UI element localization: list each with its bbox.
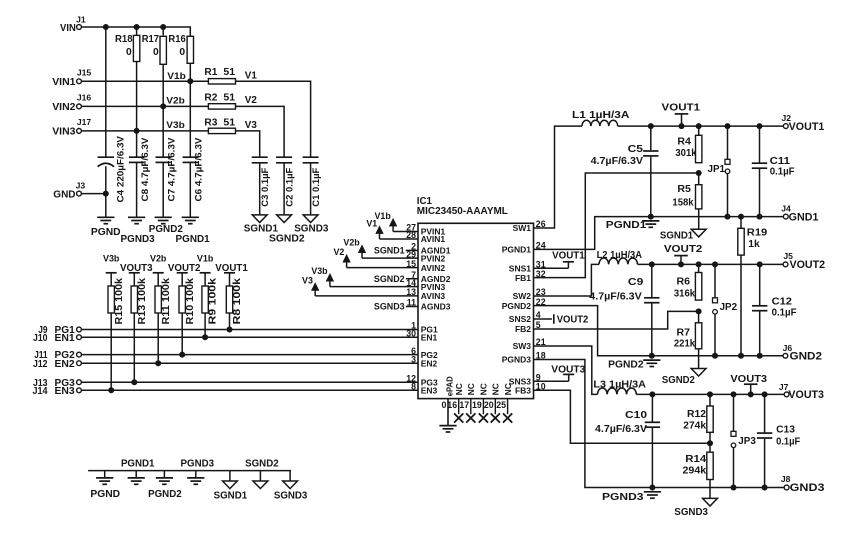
svg-text:AVIN2: AVIN2	[421, 263, 446, 273]
svg-text:C10: C10	[625, 409, 647, 421]
wire VIN1 net	[81, 80, 208, 82]
svg-text:V1b: V1b	[197, 254, 214, 264]
resistor R18 0	[115, 27, 140, 62]
svg-text:GND: GND	[53, 188, 76, 200]
svg-text:NC: NC	[466, 383, 476, 395]
capacitor C11 0.1uF	[752, 126, 795, 217]
svg-text:V3b: V3b	[166, 120, 185, 130]
ground PGND (below C4)	[91, 217, 121, 238]
svg-text:V2b: V2b	[343, 238, 360, 248]
power flag V1b for R9	[197, 254, 214, 273]
svg-text:8: 8	[411, 382, 416, 392]
wire R15 to line	[108, 313, 114, 393]
svg-text:V3b: V3b	[103, 254, 120, 264]
net label V3	[245, 120, 258, 131]
svg-text:SGND1: SGND1	[660, 231, 694, 242]
svg-text:PGND1: PGND1	[176, 234, 210, 245]
net stub SGND3 (AGND pin)	[374, 302, 418, 312]
connector J9 (PG1)	[38, 325, 81, 336]
junction dots GND2 rail	[649, 353, 763, 359]
ground SGND3 (legend)	[274, 471, 308, 502]
power flag V2b for R11	[150, 254, 167, 273]
svg-text:FB2: FB2	[515, 324, 531, 334]
wire C1 to SGND3	[310, 163, 312, 215]
svg-text:V3b: V3b	[311, 266, 328, 276]
svg-text:19: 19	[472, 400, 482, 410]
resistor R17 0	[142, 27, 167, 64]
svg-text:V2b: V2b	[166, 95, 185, 105]
svg-text:0: 0	[441, 400, 446, 410]
wire R5 to SGND1	[698, 209, 700, 229]
svg-text:GND1: GND1	[789, 211, 819, 223]
svg-text:R6: R6	[677, 277, 691, 288]
wire L2 to VOUT2 rail	[638, 263, 784, 265]
net flag VOUT3 (SNS3)	[534, 364, 586, 381]
connector J5 (VOUT2)	[783, 251, 825, 271]
svg-text:J10: J10	[33, 333, 48, 344]
wire C7 column	[162, 106, 164, 217]
svg-text:NC: NC	[491, 383, 501, 395]
svg-text:R13 100k: R13 100k	[137, 277, 148, 324]
svg-text:R17: R17	[142, 34, 160, 45]
connector J17 (VIN3)	[52, 117, 91, 138]
svg-text:VOUT1: VOUT1	[789, 121, 825, 133]
svg-text:0.1µF: 0.1µF	[770, 166, 795, 178]
svg-text:51: 51	[223, 92, 235, 103]
svg-text:301k: 301k	[675, 148, 697, 159]
wire R13 to line	[131, 313, 137, 385]
jumper JP3	[731, 394, 756, 487]
svg-text:SGND2: SGND2	[245, 459, 279, 470]
capacitor C7 4.7uF/6.3V	[156, 137, 178, 202]
svg-text:V1b: V1b	[167, 71, 186, 81]
wire GND to C4	[81, 193, 105, 195]
svg-text:VOUT2: VOUT2	[790, 259, 826, 271]
svg-text:VOUT2: VOUT2	[664, 244, 703, 255]
svg-text:NC: NC	[479, 383, 489, 395]
svg-text:294k: 294k	[683, 465, 707, 476]
svg-text:L2 1µH/3A: L2 1µH/3A	[597, 250, 643, 261]
svg-text:PGND3: PGND3	[121, 234, 155, 245]
svg-text:PGND: PGND	[91, 227, 121, 238]
junction dots GND1 rail	[648, 214, 763, 220]
net label V2	[245, 95, 258, 106]
connector J13 (PG3)	[33, 378, 81, 389]
resistor R19 1k	[738, 217, 768, 256]
junction dots VOUT2 rail	[649, 261, 763, 267]
wire V2 to IC	[347, 267, 418, 269]
wire R8 to line	[227, 313, 233, 333]
svg-text:VOUT2: VOUT2	[557, 315, 589, 326]
capacitor C9 4.7uF/6.3V	[589, 264, 659, 355]
capacitor C2 0.1uF	[276, 157, 295, 207]
ground PGND2 (below C7)	[149, 217, 183, 235]
svg-text:EN1: EN1	[55, 333, 76, 344]
ground PGND1 (rail)	[606, 220, 660, 231]
svg-text:EN3: EN3	[55, 386, 76, 397]
svg-text:J16: J16	[77, 92, 92, 102]
svg-text:PGND3: PGND3	[502, 355, 532, 365]
svg-text:SW3: SW3	[513, 341, 532, 351]
svg-text:V3: V3	[302, 275, 313, 285]
wire R7 to SGND2	[698, 349, 700, 369]
net stub SGND1 (AGND pin)	[374, 246, 418, 256]
svg-text:0.1µF: 0.1µF	[776, 436, 801, 448]
power flag VOUT3 (rail)	[730, 374, 767, 394]
svg-text:R16: R16	[168, 34, 186, 45]
svg-text:V1: V1	[245, 70, 258, 81]
svg-text:VOUT3: VOUT3	[730, 374, 767, 385]
svg-text:PGND1: PGND1	[502, 245, 532, 255]
resistor R1 51	[204, 67, 235, 84]
svg-text:221k: 221k	[674, 339, 696, 350]
ground PGND1 (legend)	[121, 459, 155, 485]
svg-text:PGND1: PGND1	[121, 459, 155, 470]
wire PGND1 pin to GND1 rail	[534, 217, 784, 250]
svg-text:C3 0.1µF: C3 0.1µF	[259, 167, 270, 206]
svg-text:AGND3: AGND3	[421, 302, 451, 312]
wire PGND2 pin to GND2 rail	[534, 306, 784, 356]
ground SGND1 (below C3)	[244, 215, 278, 235]
svg-text:SW2: SW2	[513, 291, 532, 301]
svg-text:0: 0	[179, 47, 185, 58]
wire V1b to IC	[393, 231, 418, 233]
svg-text:C13: C13	[776, 424, 795, 436]
svg-text:AVIN1: AVIN1	[421, 234, 446, 244]
ground PGND2 (legend)	[148, 471, 182, 500]
svg-text:R11 100k: R11 100k	[161, 277, 172, 324]
svg-text:17: 17	[459, 400, 469, 410]
resistor R6 316k	[674, 264, 702, 300]
svg-text:C2 0.1µF: C2 0.1µF	[284, 167, 295, 206]
ground PGND3 (below C8)	[121, 217, 155, 245]
svg-text:C4 220µF/6.3V: C4 220µF/6.3V	[116, 135, 127, 202]
svg-text:SGND2: SGND2	[374, 274, 405, 284]
svg-text:3: 3	[411, 354, 416, 364]
junction dots GND3 rail	[649, 485, 767, 491]
svg-text:IC1: IC1	[417, 196, 433, 207]
svg-text:EN1: EN1	[421, 332, 438, 342]
wire C6 column	[189, 81, 191, 217]
wire PG3 net	[81, 381, 418, 383]
svg-text:FB3: FB3	[515, 385, 531, 395]
power flag VOUT2 for R10	[168, 263, 201, 274]
svg-text:EN2: EN2	[421, 358, 438, 368]
connector J10 (EN1)	[33, 333, 81, 344]
ground SGND3 (below C1)	[294, 215, 328, 235]
svg-text:4.7µF/6.3V: 4.7µF/6.3V	[589, 291, 641, 303]
svg-text:158k: 158k	[672, 198, 694, 209]
svg-text:C1 0.1µF: C1 0.1µF	[310, 167, 321, 206]
capacitor C1 0.1uF	[303, 157, 322, 207]
inductor L3 1uH/3A	[593, 380, 646, 395]
svg-text:R14: R14	[685, 454, 706, 465]
net label VOUT2 (SNS2)	[534, 314, 589, 325]
svg-text:SGND2: SGND2	[269, 234, 305, 245]
svg-text:274k: 274k	[683, 420, 706, 431]
svg-text:PGND2: PGND2	[502, 301, 532, 311]
svg-text:J15: J15	[77, 67, 92, 77]
wire C2 to SGND2	[283, 163, 285, 215]
svg-text:SGND1: SGND1	[214, 491, 248, 502]
svg-text:0: 0	[153, 47, 159, 58]
svg-text:VOUT3: VOUT3	[788, 389, 824, 401]
connector J1 (VIN)	[60, 15, 86, 34]
svg-text:51: 51	[223, 67, 235, 78]
svg-text:0: 0	[126, 47, 132, 58]
power flag VOUT2 (rail)	[664, 244, 703, 265]
ground SGND3 (output3)	[674, 498, 717, 518]
svg-text:J3: J3	[76, 180, 86, 190]
svg-text:1k: 1k	[748, 239, 760, 250]
wire R19 to GND2 rail	[740, 255, 742, 356]
net flag VOUT1 (SNS1)	[534, 251, 586, 269]
svg-text:J1: J1	[76, 15, 86, 25]
ground SGND1 (output1)	[660, 229, 706, 241]
svg-text:51: 51	[223, 117, 235, 128]
junction dots VOUT3 rail	[649, 391, 767, 397]
capacitor C8 4.7uF/6.3V	[129, 137, 151, 202]
wire R18 to VIN3 (V3b)	[134, 62, 140, 134]
net flag V1 (arrow)	[366, 218, 383, 239]
op-amp IC1 MIC23450-AAAYML	[406, 196, 545, 410]
svg-text:PGND: PGND	[90, 489, 120, 500]
wire R17 to VIN2 (V2b)	[160, 64, 166, 109]
net label V1	[245, 70, 258, 81]
wire V1 net	[236, 81, 311, 156]
svg-text:R9 100k: R9 100k	[208, 277, 219, 324]
svg-text:R1: R1	[204, 67, 217, 78]
wire PG1 net	[81, 329, 418, 331]
wire SW3 to L3	[534, 346, 598, 394]
capacitor C12 0.1uF	[752, 264, 797, 355]
wire V3 to IC	[315, 295, 418, 297]
ground SGND2 (output2)	[662, 369, 706, 387]
net stub SGND2 (AGND pin)	[374, 274, 418, 284]
connector J16 (VIN2)	[52, 92, 91, 113]
resistor R13 100k	[131, 273, 148, 325]
svg-text:4.7µF/6.3V: 4.7µF/6.3V	[595, 423, 647, 435]
connector J7 (VOUT3)	[779, 382, 824, 401]
ground SGND2 (legend)	[245, 459, 279, 489]
no-connect X marks on NC pins	[454, 399, 512, 423]
svg-text:C5: C5	[628, 143, 644, 155]
wire PGND3 pin to GND3 rail	[534, 360, 785, 488]
wire R16 to VIN1 (V1b)	[187, 63, 193, 84]
svg-text:PGND2: PGND2	[608, 359, 644, 370]
wire R11 to line	[155, 313, 161, 366]
resistor R4 301k	[675, 126, 702, 163]
capacitor C6 4.7uF/6.3V	[183, 137, 205, 202]
svg-text:GND3: GND3	[790, 482, 825, 494]
resistor R7 221k	[674, 311, 702, 349]
resistor R14 294k	[683, 432, 714, 479]
wire V2b to IC	[362, 257, 418, 259]
power flag VOUT1 (rail)	[662, 102, 701, 126]
wire R10 to line	[179, 313, 185, 358]
svg-text:0.1µF: 0.1µF	[772, 306, 797, 318]
capacitor C4 220uF/6.3V	[98, 135, 127, 202]
junction FB1 node	[696, 170, 702, 176]
wire SW2 to L2	[534, 264, 600, 296]
svg-text:V2: V2	[245, 95, 258, 106]
wire SW1 to L1	[534, 126, 583, 228]
junction dots on VIN rail	[103, 24, 166, 30]
ground PGND1 (below C6)	[176, 217, 210, 245]
net flag V2 (arrow)	[333, 247, 350, 268]
resistor R11 100k	[155, 273, 172, 325]
wire L3 to VOUT3 rail	[636, 393, 784, 395]
svg-text:R18: R18	[115, 34, 133, 45]
wire VIN2 net	[81, 105, 208, 107]
svg-text:NC: NC	[454, 383, 464, 395]
connector J15 (VIN1)	[52, 67, 91, 88]
inductor L2 1uH/3A	[597, 250, 643, 265]
wire ground tie rail	[88, 470, 291, 472]
connector J3 (GND)	[53, 180, 85, 200]
svg-text:R12: R12	[687, 409, 706, 420]
svg-text:JP1: JP1	[708, 164, 726, 175]
wire VIN3 net	[81, 130, 208, 132]
svg-text:JP2: JP2	[720, 302, 738, 313]
svg-text:30: 30	[406, 328, 416, 338]
net label V2b (input)	[166, 95, 185, 105]
svg-text:25: 25	[496, 400, 506, 410]
resistor R15 100k	[108, 273, 125, 325]
resistor R12 274k	[683, 394, 713, 432]
wire EN1 net	[81, 336, 418, 338]
svg-text:PGND3: PGND3	[602, 492, 644, 503]
net flag V2b (arrow)	[343, 238, 365, 259]
svg-text:V2: V2	[333, 247, 344, 257]
net flag V1b (arrow)	[375, 211, 397, 232]
svg-text:EN3: EN3	[421, 386, 438, 396]
svg-text:VIN: VIN	[60, 22, 76, 34]
power flag V3b for R15	[103, 254, 120, 273]
connector J4 (GND1)	[781, 204, 818, 224]
connector J11 (PG2)	[34, 350, 81, 361]
resistor R3 51	[204, 117, 235, 133]
junction dots VOUT1 rail	[648, 123, 763, 129]
svg-text:V1: V1	[366, 218, 377, 228]
junction FB2 node	[696, 308, 702, 314]
inductor L1 1uH/3A	[572, 110, 630, 126]
svg-text:J12: J12	[33, 359, 48, 370]
svg-text:SGND3: SGND3	[374, 302, 405, 312]
svg-text:R19: R19	[747, 227, 768, 238]
svg-text:R8 100k: R8 100k	[232, 277, 243, 324]
net flag V3b (arrow)	[311, 266, 333, 287]
svg-text:SGND3: SGND3	[294, 224, 328, 235]
wire C8 column	[136, 131, 138, 217]
resistor R8 100k	[226, 273, 243, 325]
svg-text:20: 20	[484, 400, 494, 410]
jumper JP2	[713, 264, 738, 355]
wire V1 to IC	[380, 238, 419, 240]
wire FB3 net	[534, 390, 711, 443]
wire V3 net	[236, 131, 260, 157]
svg-text:C9: C9	[628, 276, 644, 288]
power flag VOUT3 for R13	[120, 263, 153, 274]
svg-text:C6 4.7µF/6.3V: C6 4.7µF/6.3V	[194, 137, 205, 202]
capacitor C10 4.7uF/6.3V	[595, 394, 660, 487]
ground PGND3 (legend)	[181, 459, 215, 485]
wire V3b to IC	[330, 286, 418, 288]
svg-text:V3: V3	[245, 120, 258, 131]
wire FB1 net	[534, 173, 699, 278]
net label V1b (input)	[167, 71, 186, 81]
svg-text:R10 100k: R10 100k	[185, 277, 196, 324]
wire EN2 net	[81, 362, 418, 364]
wire R9 to line	[202, 313, 208, 340]
svg-text:R2: R2	[204, 92, 217, 103]
svg-text:J7: J7	[779, 382, 789, 392]
svg-text:FB1: FB1	[515, 273, 531, 283]
svg-text:R15 100k: R15 100k	[114, 277, 125, 324]
connector J6 (GND2)	[783, 343, 822, 362]
svg-text:316k: 316k	[674, 289, 696, 300]
resistor R9 100k	[202, 273, 219, 325]
junction GND/C4	[103, 191, 109, 197]
svg-text:4.7µF/6.3V: 4.7µF/6.3V	[591, 155, 643, 167]
svg-text:GND2: GND2	[790, 351, 823, 363]
svg-text:SGND2: SGND2	[662, 375, 695, 386]
jumper JP1	[708, 126, 731, 217]
svg-text:SNS2: SNS2	[509, 314, 531, 324]
svg-text:SGND1: SGND1	[374, 246, 405, 256]
capacitor C13 0.1uF	[757, 394, 801, 487]
ground PGND2 (rail)	[608, 359, 660, 370]
svg-text:PVIN2: PVIN2	[421, 253, 446, 263]
wire R14 to SGND3	[709, 480, 711, 499]
wire EN3 net	[81, 389, 418, 391]
wire PG2 net	[81, 354, 418, 356]
wire C3 to SGND1	[259, 163, 261, 215]
svg-text:VOUT3: VOUT3	[551, 364, 585, 375]
ground SGND1 (legend)	[214, 471, 248, 502]
svg-text:EN2: EN2	[55, 359, 76, 370]
junction FB3 node	[707, 440, 713, 446]
svg-text:JP3: JP3	[738, 436, 756, 447]
connector J14 (EN3)	[33, 386, 82, 397]
svg-text:AVIN3: AVIN3	[421, 291, 446, 301]
svg-text:SGND3: SGND3	[274, 491, 308, 502]
capacitor C5 4.7uF/6.3V	[591, 126, 659, 217]
ground PGND3 (rail)	[602, 492, 661, 503]
wire C4 column	[105, 27, 107, 217]
wire VIN rail	[81, 27, 190, 36]
svg-text:PGND2: PGND2	[148, 489, 182, 500]
resistor R10 100k	[179, 273, 196, 325]
connector J12 (EN2)	[33, 359, 81, 370]
ground PGND (legend)	[90, 471, 120, 500]
connector J8 (GND3)	[781, 474, 825, 494]
svg-text:VIN2: VIN2	[52, 101, 75, 113]
ground (ePAD)	[439, 426, 456, 432]
net flag V3 (arrow)	[302, 275, 319, 296]
connector J2 (VOUT1)	[782, 113, 825, 133]
net label V3b (input)	[166, 120, 185, 130]
capacitor C3 0.1uF	[252, 157, 271, 207]
svg-text:R4: R4	[677, 137, 691, 148]
svg-text:MIC23450-AAAYML: MIC23450-AAAYML	[417, 206, 508, 217]
svg-text:VOUT1: VOUT1	[662, 102, 701, 113]
svg-text:SW1: SW1	[513, 223, 532, 233]
svg-text:VOUT1: VOUT1	[552, 251, 585, 262]
svg-text:J17: J17	[77, 117, 92, 127]
svg-text:V2b: V2b	[150, 254, 167, 264]
wire L1 to VOUT1 rail	[618, 125, 784, 127]
